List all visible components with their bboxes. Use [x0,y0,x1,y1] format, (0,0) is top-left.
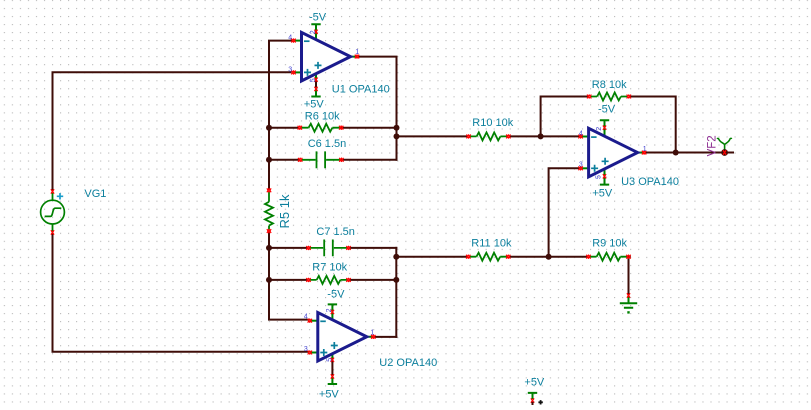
svg-text:5: 5 [310,78,317,82]
junction node F / R7 [393,277,399,283]
svg-text:+5V: +5V [592,188,613,200]
wire R9 to ground [629,257,630,295]
svg-text:3: 3 [288,66,292,73]
wire R6 to node C [341,127,396,129]
op-amp U3 OPA140 [579,103,679,199]
junction node B / C7 [266,245,272,251]
ground [620,293,637,313]
svg-text:R8 10k: R8 10k [592,79,627,91]
junction node A / C6 [266,157,272,163]
svg-text:+5V: +5V [304,99,325,111]
svg-text:4: 4 [304,314,308,321]
svg-text:R10 10k: R10 10k [472,117,513,129]
wire R7 to node F [350,279,397,281]
wire C7 node down to U2 out [395,248,397,337]
svg-text:VG1: VG1 [84,188,106,200]
svg-text:+5V: +5V [524,377,545,389]
svg-text:-5V: -5V [327,288,345,300]
wire U2 out [375,336,396,338]
capacitor C7 1.5n [306,226,355,256]
junction node D [538,133,544,139]
svg-text:2: 2 [326,308,333,312]
wire node B to R7 [269,279,307,281]
svg-text:VF2: VF2 [706,135,718,156]
junction node F / R11 [393,254,399,260]
svg-text:5: 5 [326,358,333,362]
resistor R11 10k [466,237,512,260]
resistor R5 1k [265,188,292,233]
wire node C to R10 [397,135,468,137]
svg-text:1: 1 [355,49,359,56]
resistor R8 10k [587,79,631,101]
svg-text:4: 4 [288,35,292,42]
svg-text:R6 10k: R6 10k [305,110,340,122]
junction node C / R10 [394,133,400,139]
svg-text:C7 1.5n: C7 1.5n [316,226,355,238]
wire C7 to node F [350,247,397,249]
resistor R10 10k [467,117,514,141]
wire node A to C6 [269,159,299,161]
svg-text:R11 10k: R11 10k [471,237,512,249]
svg-text:3: 3 [579,162,583,169]
op-amp U1 OPA140 [288,11,389,110]
wire U1 out to node C [359,57,396,160]
wire C6 to node C [341,159,396,161]
wire U3 out to VF2 [646,152,733,154]
wire node A to R6 [269,127,299,129]
svg-text:1: 1 [370,329,374,336]
wire VG1- to U2 pin3 [53,234,309,352]
svg-text:1: 1 [643,146,647,153]
svg-text:3: 3 [304,346,308,353]
svg-text:2: 2 [310,30,317,34]
output probe VF2 [706,135,731,156]
svg-text:2: 2 [596,127,603,131]
junction node B / R7 [266,277,272,283]
capacitor C6 1.5n [298,138,346,168]
wire R10 to node D [510,135,541,137]
wire node E to R9 [549,256,588,258]
wire U3 pin3 to node E [549,168,580,256]
svg-text:-5V: -5V [598,103,616,115]
wire node B to U2 pin4 [269,232,309,319]
junction output / R8 [673,150,679,156]
junction node A / R6 [266,125,272,131]
svg-text:U3 OPA140: U3 OPA140 [621,176,679,188]
svg-text:+5V: +5V [319,388,340,400]
wire node D to U3 pin4 [541,135,580,137]
wire R8 to output node [631,97,676,153]
svg-text:5: 5 [596,175,603,179]
svg-text:U1 OPA140: U1 OPA140 [332,84,390,96]
svg-text:-5V: -5V [309,11,327,23]
wire node B to C7 [269,247,307,249]
svg-text:4: 4 [579,131,583,138]
junction node C / R6 [394,125,400,131]
junction node E [546,254,552,260]
wire R11 to node E [510,256,549,258]
svg-text:R9 10k: R9 10k [592,238,627,250]
wire U1 pin4 to node A [269,41,292,189]
op-amp U2 OPA140 [304,288,437,400]
svg-text:U2 OPA140: U2 OPA140 [379,357,437,369]
voltage source VG1 [41,188,107,235]
svg-text:C6 1.5n: C6 1.5n [308,138,347,150]
resistor R6 10k [298,110,344,131]
wire VG1+ to U1 pin3 [53,72,291,190]
svg-text:R5 1k: R5 1k [277,194,292,228]
resistor R9 10k [586,238,630,261]
resistor R7 10k [306,262,350,284]
svg-text:R7 10k: R7 10k [312,262,347,274]
wire node D up to R8 [541,97,588,137]
power supply +5V [524,377,545,405]
wire node F to R11 [396,256,467,258]
